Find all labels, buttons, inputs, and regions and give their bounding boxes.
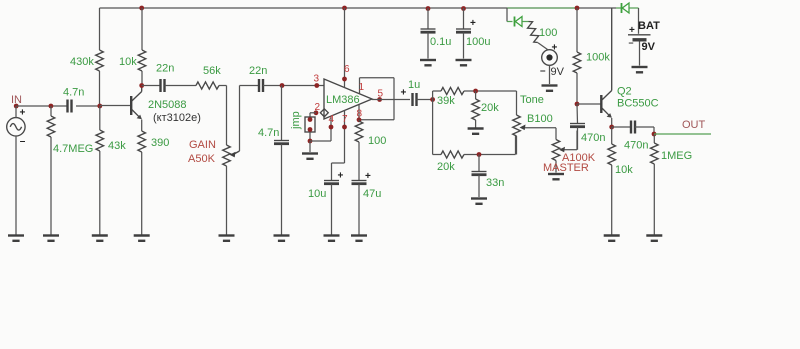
- capacitor C4 4.7n shunt: [274, 86, 289, 236]
- resistor R5 10k: [138, 8, 146, 86]
- diode D2 battery isolation: [616, 3, 639, 13]
- wire Q2 emitter: [611, 118, 613, 127]
- capacitor C12 470n output: [631, 121, 635, 134]
- wire 39k to 20k node: [464, 90, 517, 92]
- label 2N5088: [148, 99, 187, 111]
- label 10k emitter: [615, 164, 633, 176]
- ground 43k: [92, 236, 108, 241]
- capacitor C9 0.1u: [421, 8, 436, 59]
- ac source V1: [7, 106, 25, 141]
- transistor Q2 BC550C: [601, 8, 612, 118]
- label 9V battery: [642, 41, 656, 53]
- op-amp U1 LM386 triangle: [324, 79, 372, 119]
- svg-text:3: 3: [314, 74, 320, 85]
- label MASTER: [543, 162, 589, 174]
- pin 1 marker: [359, 82, 365, 93]
- label 56k: [203, 65, 221, 77]
- pin 8 stub: [358, 105, 360, 120]
- ground 47u: [351, 236, 367, 241]
- transistor Q1 2N5088: [131, 86, 142, 119]
- wire 1u to tone: [417, 99, 433, 101]
- label LM386: [326, 94, 360, 106]
- wire collector to 22n: [142, 85, 161, 87]
- label GAIN: [189, 139, 216, 151]
- label jmp: [290, 111, 302, 130]
- wire jack to ground: [549, 65, 551, 84]
- master pot wiper: [559, 131, 577, 153]
- plus 47u: [365, 171, 371, 182]
- node 33n junction: [477, 152, 482, 157]
- svg-text:100: 100: [539, 27, 557, 39]
- capacitor C7 1u: [413, 93, 417, 106]
- svg-text:100: 100: [368, 135, 386, 147]
- svg-text:6: 6: [344, 64, 350, 75]
- label 22n second: [249, 65, 267, 77]
- svg-text:(кт3102е): (кт3102е): [153, 112, 201, 124]
- pin 1 stub: [359, 78, 361, 94]
- wire 20k to 33n node: [464, 154, 516, 156]
- capacitor C5 10u bypass: [324, 181, 339, 236]
- resistor R14 10k emitter: [608, 127, 616, 235]
- wire jumper to ground node: [308, 132, 313, 152]
- svg-text:47u: 47u: [363, 188, 381, 200]
- potentiometer VR3 A100K master: [552, 140, 560, 173]
- label Q2: [617, 86, 632, 98]
- ground 1MEG: [646, 236, 662, 241]
- minus battery: [629, 38, 634, 48]
- svg-text:LM386: LM386: [326, 94, 360, 106]
- pin 7 marker: [342, 114, 348, 129]
- minus jack: [540, 66, 546, 77]
- label A100K: [562, 152, 596, 164]
- wire tone pot top: [516, 91, 518, 115]
- wire pin6: [344, 8, 346, 88]
- plus battery: [629, 25, 635, 36]
- label 43k: [108, 140, 126, 152]
- jumper JP1: [305, 113, 316, 132]
- svg-text:10k: 10k: [615, 164, 633, 176]
- svg-text:Q2: Q2: [617, 86, 632, 98]
- wire 22n to 56k: [165, 85, 197, 87]
- svg-text:4.7MEG: 4.7MEG: [53, 143, 93, 155]
- label 100k: [586, 52, 610, 64]
- wire to jack: [538, 43, 548, 50]
- wire Q2 base: [577, 103, 601, 105]
- svg-text:20k: 20k: [481, 102, 499, 114]
- svg-text:4.7n: 4.7n: [63, 87, 84, 99]
- node input junction A: [14, 104, 19, 109]
- node rail-0.1u junction: [426, 6, 431, 11]
- svg-text:BAT: BAT: [638, 20, 660, 32]
- dc jack 9V: [542, 50, 558, 66]
- label 22n first: [156, 63, 174, 75]
- battery BT1 9V: [628, 35, 651, 40]
- resistor R2 4.7MEG: [47, 106, 55, 235]
- ground master pot: [548, 174, 564, 179]
- label 100 lm386: [368, 135, 386, 147]
- capacitor C8 33n: [472, 155, 487, 198]
- svg-text:0.1u: 0.1u: [430, 36, 451, 48]
- pin 7 stub: [344, 111, 346, 164]
- svg-text:43k: 43k: [108, 140, 126, 152]
- label 9V jack: [551, 66, 565, 78]
- wire top rail segment to Q2 collector and diode: [577, 7, 616, 9]
- wire to 39k: [433, 91, 441, 100]
- svg-text:39k: 39k: [437, 95, 455, 107]
- plus 100u: [470, 18, 476, 29]
- pin2 diamond: [320, 109, 328, 117]
- label 47u: [363, 188, 381, 200]
- ground 390: [134, 236, 150, 241]
- resistor R9 39k: [441, 87, 464, 94]
- label 4.7n shunt: [258, 127, 279, 139]
- ground 33n: [471, 199, 487, 204]
- ground 10u: [324, 236, 340, 241]
- svg-text:A50K: A50K: [188, 153, 216, 165]
- svg-text:–: –: [540, 66, 546, 77]
- capacitor C2 22n: [161, 79, 165, 92]
- wire pin7 to 10u: [332, 163, 345, 181]
- ground 100u: [456, 60, 472, 65]
- tone pot wiper: [520, 125, 557, 140]
- svg-text:1u: 1u: [408, 79, 420, 91]
- label kt3102e: [153, 112, 201, 124]
- label OUT: [682, 119, 706, 131]
- pin 8 marker: [357, 109, 363, 123]
- svg-text:1: 1: [359, 82, 365, 93]
- wire emitter to 470n: [612, 126, 631, 128]
- node rail-100k junction: [575, 6, 580, 11]
- svg-text:470n: 470n: [624, 140, 648, 152]
- potentiometer VR2 B100 tone: [513, 115, 521, 155]
- label 390: [151, 137, 169, 149]
- node rail-100u junction: [461, 6, 466, 11]
- capacitor C1 4.7n: [68, 100, 72, 113]
- ground jack: [542, 86, 558, 91]
- capacitor C11 470n base: [570, 104, 585, 150]
- label A50K: [188, 153, 216, 165]
- wire bottom 20k branch: [433, 100, 441, 155]
- wire tone pot bottom: [515, 136, 517, 155]
- wire 470n to out node: [635, 127, 654, 134]
- svg-text:10u: 10u: [308, 188, 326, 200]
- ground source: [8, 236, 24, 241]
- svg-text:100u: 100u: [466, 36, 490, 48]
- node Q2 emitter: [609, 125, 614, 130]
- svg-text:+: +: [20, 108, 26, 119]
- svg-text:10k: 10k: [119, 56, 137, 68]
- label 100u: [466, 36, 490, 48]
- svg-text:MASTER: MASTER: [543, 162, 589, 174]
- potentiometer VR1 A50K gain: [223, 145, 231, 235]
- ac source V1 minus mark: [20, 136, 26, 147]
- node output junction: [652, 132, 657, 137]
- svg-text:BC550C: BC550C: [617, 98, 659, 110]
- svg-text:33n: 33n: [486, 177, 504, 189]
- wire battery to ground: [639, 42, 641, 66]
- svg-text:Tone: Tone: [520, 94, 544, 106]
- label 20k bottom: [437, 161, 455, 173]
- capacitor C3 22n: [259, 79, 263, 92]
- label 1u: [408, 79, 420, 91]
- capacitor C6 47u: [352, 181, 367, 236]
- label 4.7MEG: [53, 143, 93, 155]
- svg-text:470n: 470n: [581, 132, 605, 144]
- resistor R11 20k series: [441, 151, 464, 158]
- wire rail to diode1: [507, 8, 513, 22]
- node rail-10k junction: [139, 6, 144, 11]
- svg-text:9V: 9V: [642, 41, 656, 53]
- resistor R15 1MEG: [651, 134, 659, 235]
- wire output pin5: [372, 99, 410, 101]
- ac source V1 plus mark: [20, 108, 26, 119]
- node tone input: [430, 97, 435, 102]
- ground 10k emitter: [604, 236, 620, 241]
- svg-text:22n: 22n: [249, 65, 267, 77]
- svg-text:+: +: [338, 171, 344, 182]
- svg-text:+: +: [470, 18, 476, 29]
- svg-text:+: +: [401, 88, 407, 99]
- resistor R3 430k: [96, 8, 104, 106]
- wire pin4 to jumper: [310, 116, 331, 141]
- pin 6 marker: [342, 64, 350, 81]
- resistor R6 390: [138, 120, 146, 236]
- svg-text:GAIN: GAIN: [189, 139, 216, 151]
- wire input row: [16, 105, 100, 107]
- gain pot wiper: [230, 86, 240, 158]
- label Tone: [520, 94, 544, 106]
- label 470n base: [581, 132, 605, 144]
- wire base Q1: [100, 105, 131, 107]
- ground 4.7MEG: [43, 236, 59, 241]
- svg-text:B100: B100: [527, 113, 553, 125]
- resistor R4 43k: [96, 106, 104, 235]
- label 100 supply: [539, 27, 557, 39]
- label 430k: [70, 56, 94, 68]
- label 10u: [308, 188, 326, 200]
- svg-text:–: –: [629, 38, 634, 48]
- node 39k-20k junction: [473, 89, 478, 94]
- node 4.7n junction: [280, 83, 285, 88]
- label B100: [527, 113, 553, 125]
- pin 2 marker: [314, 102, 321, 115]
- wire OUT green: [654, 133, 711, 135]
- label 0.1u: [430, 36, 451, 48]
- ground 4.7n shunt: [274, 236, 290, 241]
- pin 5 output: [377, 89, 383, 102]
- label 470n output: [624, 140, 648, 152]
- svg-text:20k: 20k: [437, 161, 455, 173]
- plus 10u: [338, 171, 344, 182]
- capacitor C10 100u: [456, 8, 471, 59]
- wire diode to battery: [638, 8, 640, 34]
- label 4.7n input: [63, 87, 84, 99]
- svg-text:2N5088: 2N5088: [148, 99, 187, 111]
- wire wiper to 22n: [240, 85, 260, 87]
- plus jack: [552, 43, 558, 54]
- pin 4 marker: [329, 114, 335, 129]
- resistor R7 56k: [196, 82, 219, 89]
- svg-text:56k: 56k: [203, 65, 221, 77]
- gain loop rectangle pin1-pin8: [359, 78, 394, 120]
- label BC550C: [617, 98, 659, 110]
- ground 0.1u: [420, 60, 436, 65]
- resistor R8 100: [355, 120, 363, 181]
- svg-text:22n: 22n: [156, 63, 174, 75]
- svg-text:7: 7: [342, 114, 348, 125]
- svg-text:9V: 9V: [551, 66, 565, 78]
- node rail-pin6 junction: [342, 6, 347, 11]
- svg-text:100k: 100k: [586, 52, 610, 64]
- node input-4.7MEG junction: [49, 104, 54, 109]
- svg-text:4.7n: 4.7n: [258, 127, 279, 139]
- svg-text:430k: 430k: [70, 56, 94, 68]
- ground gain pot: [219, 236, 235, 241]
- label 1MEG: [661, 150, 692, 162]
- label 10k collector: [119, 56, 137, 68]
- wire top supply rail (dark segment): [100, 7, 508, 9]
- svg-text:5: 5: [378, 89, 384, 100]
- node collector junction: [139, 83, 144, 88]
- wire source to ground: [15, 141, 17, 235]
- label BAT: [638, 20, 660, 32]
- svg-text:390: 390: [151, 137, 169, 149]
- ground 20k top: [468, 129, 484, 134]
- resistor R12 100 supply: [525, 20, 541, 44]
- svg-text:+: +: [365, 171, 371, 182]
- svg-text:4: 4: [329, 114, 335, 125]
- label 39k: [437, 95, 455, 107]
- wire 22n to pin3: [263, 85, 324, 87]
- pin 3 marker: [314, 74, 320, 88]
- svg-text:1MEG: 1MEG: [661, 150, 692, 162]
- resistor R13 100k: [573, 8, 581, 104]
- svg-text:OUT: OUT: [682, 119, 706, 131]
- wire top supply rail (green segment to 100k node): [507, 7, 577, 9]
- plus 1u: [401, 88, 407, 99]
- label IN: [11, 94, 22, 106]
- resistor R10 20k shunt: [472, 91, 480, 128]
- node Q2 base: [575, 102, 580, 107]
- wire 56k to gain pot: [219, 86, 227, 146]
- diode D1 supply: [515, 17, 529, 27]
- label 33n: [486, 177, 504, 189]
- ground battery: [632, 67, 648, 72]
- node base junction: [97, 104, 102, 109]
- svg-text:–: –: [20, 136, 26, 147]
- ground jumper: [302, 154, 318, 159]
- svg-text:jmp: jmp: [290, 111, 302, 130]
- label 20k top: [481, 102, 499, 114]
